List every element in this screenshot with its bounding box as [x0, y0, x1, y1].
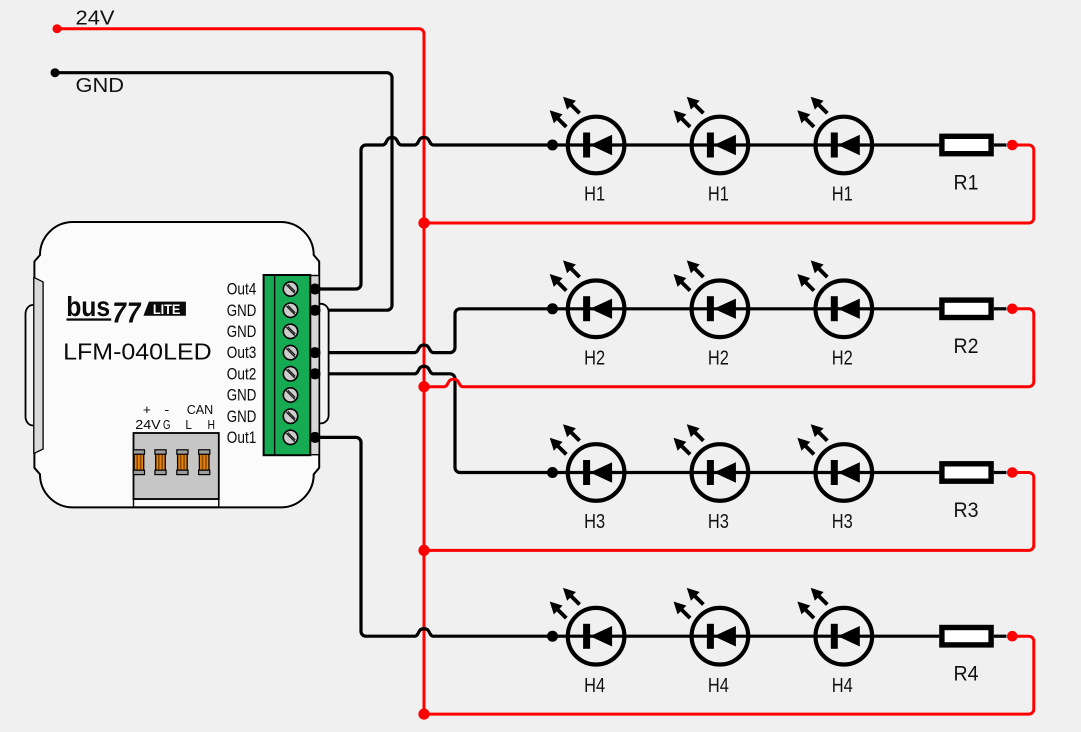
logo bus77 — [66, 291, 186, 329]
svg-text:H4: H4 — [584, 675, 605, 697]
node anode dot row 2 — [1007, 304, 1018, 315]
node anode dot row 4 — [1007, 631, 1018, 642]
resistor R3 — [942, 464, 991, 481]
svg-text:H2: H2 — [708, 347, 729, 369]
screw terminal 4 (Out3) — [283, 345, 297, 359]
LED H3 (2) — [674, 424, 749, 501]
screw terminal 7 (GND) — [283, 409, 297, 423]
screw terminal 3 (GND) — [283, 324, 297, 338]
LED H1 (3) — [797, 97, 872, 174]
node GND start — [51, 68, 60, 77]
bottom CAN/power connector — [133, 433, 219, 507]
connector pin 3 — [177, 450, 188, 475]
svg-text:24V: 24V — [76, 8, 116, 30]
node anode dot row 1 — [1007, 140, 1018, 151]
wire R3 right lead — [994, 471, 1007, 474]
svg-text:+: + — [143, 403, 151, 417]
node red junction row 4 — [418, 709, 429, 720]
connector pin 2 — [155, 450, 166, 475]
svg-text:GND: GND — [76, 75, 125, 97]
svg-text:R2: R2 — [954, 335, 979, 358]
svg-text:GND: GND — [227, 408, 257, 426]
svg-text:H4: H4 — [832, 675, 853, 697]
node 24V start — [53, 24, 62, 33]
left side tab — [26, 305, 41, 426]
svg-text:H1: H1 — [832, 184, 853, 206]
LED H4 (1) — [550, 588, 625, 665]
svg-text:Out4: Out4 — [227, 281, 257, 299]
pin dot terminal 2 (GND) — [310, 305, 321, 316]
svg-text:24V: 24V — [135, 418, 161, 432]
svg-text:Out1: Out1 — [227, 429, 257, 447]
svg-text:H: H — [208, 418, 216, 432]
screw terminal 8 (Out1) — [283, 430, 297, 444]
svg-text:H1: H1 — [708, 184, 729, 206]
node red junction row 1 — [418, 217, 429, 228]
svg-text:-: - — [164, 403, 169, 417]
module LFM-040LED (device U1) — [26, 222, 329, 507]
svg-text:GND: GND — [227, 323, 257, 341]
pin dot terminal 4 (Out3) — [310, 347, 321, 358]
node red junction row 3 — [418, 545, 429, 556]
wire Out1 to H4 string — [315, 437, 939, 636]
wire R1 right lead — [994, 143, 1007, 146]
wire GND rail — [55, 73, 392, 311]
terminal block X1 — [264, 275, 311, 455]
node junction H1 string start — [547, 140, 558, 151]
right side tab — [313, 304, 329, 424]
pin dot terminal 8 (Out1) — [310, 432, 321, 443]
module body — [34, 222, 319, 507]
resistor R1 — [942, 136, 991, 153]
right strip behind terminal block — [310, 276, 319, 455]
screw terminal 5 (Out2) — [283, 367, 297, 381]
LED H2 (2) — [674, 260, 749, 337]
connector pin 1 — [133, 450, 144, 475]
svg-text:R3: R3 — [954, 499, 979, 522]
svg-text:H1: H1 — [584, 184, 605, 206]
connector pin 4 — [199, 450, 210, 475]
wire 24V rail — [57, 29, 424, 713]
svg-text:LFM-040LED: LFM-040LED — [63, 338, 212, 364]
svg-text:GND: GND — [227, 387, 257, 405]
wire red return row 4 — [424, 636, 1034, 714]
svg-text:H3: H3 — [708, 511, 729, 533]
wire Out3 to H2 string — [315, 309, 939, 353]
svg-text:GND: GND — [227, 302, 257, 320]
resistor R4 — [942, 628, 991, 645]
svg-text:H3: H3 — [832, 511, 853, 533]
wire red return row 3 — [424, 473, 1034, 551]
wire R2 right lead — [994, 307, 1007, 310]
LED H3 (1) — [550, 424, 625, 501]
svg-text:H2: H2 — [584, 347, 605, 369]
node anode dot row 3 — [1007, 467, 1018, 478]
svg-text:CAN: CAN — [187, 403, 214, 417]
svg-text:LITE: LITE — [153, 301, 181, 317]
svg-text:Out3: Out3 — [227, 344, 257, 362]
LED H2 (3) — [797, 260, 872, 337]
left mounting strip — [34, 277, 43, 453]
pin dot terminal 5 (Out2) — [310, 368, 321, 379]
svg-text:G: G — [163, 418, 171, 432]
svg-text:bus: bus — [66, 291, 110, 322]
LED H2 (1) — [550, 260, 625, 337]
svg-text:R4: R4 — [954, 663, 979, 686]
screw terminal 1 (Out4) — [283, 282, 297, 296]
resistor R2 — [942, 300, 991, 317]
screw terminal 6 (GND) — [283, 388, 297, 402]
wire Out2 to H3 string — [315, 366, 939, 472]
node red junction row 2 — [418, 381, 429, 392]
LED H1 (2) — [674, 97, 749, 174]
svg-text:77: 77 — [110, 297, 143, 329]
wire Out4 to H1 string — [315, 137, 939, 289]
LED H4 (2) — [674, 588, 749, 665]
LED H4 (3) — [797, 588, 872, 665]
svg-text:R1: R1 — [954, 171, 979, 194]
wire R4 right lead — [994, 635, 1007, 638]
node junction H2 string start — [547, 303, 558, 314]
node junction H4 string start — [547, 631, 558, 642]
svg-text:H3: H3 — [584, 511, 605, 533]
screw terminal 2 (GND) — [283, 303, 297, 317]
pin dot terminal 1 (Out4) — [310, 284, 321, 295]
LED H3 (3) — [797, 424, 872, 501]
svg-text:H4: H4 — [708, 675, 729, 697]
svg-text:H2: H2 — [832, 347, 853, 369]
LED H1 (1) — [550, 97, 625, 174]
svg-text:Out2: Out2 — [227, 365, 257, 383]
wire red return row 1 — [424, 145, 1034, 223]
svg-text:L: L — [185, 418, 192, 432]
wire red return row 2 — [424, 309, 1034, 387]
node junction H3 string start — [547, 467, 558, 478]
